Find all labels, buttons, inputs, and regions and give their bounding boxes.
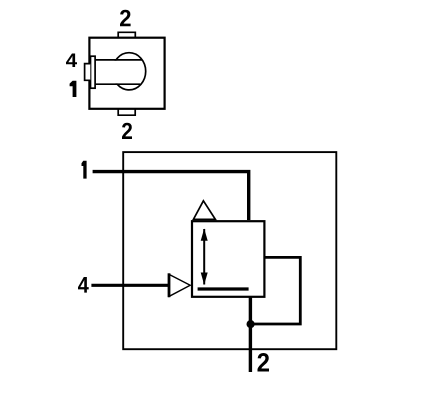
valve body box: [89, 38, 164, 109]
vent triangle (exhaust): [193, 201, 215, 220]
port label 2 (bottom): [122, 123, 132, 139]
top tab (port 2 stub): [118, 32, 135, 38]
left tab (port stub): [85, 64, 91, 81]
port label 1 (left): [70, 81, 77, 97]
bottom tab (port 2 stub): [118, 109, 135, 115]
node label 2: [257, 353, 268, 372]
adjustment double-headed arrow: [203, 229, 205, 285]
port label 4 (top-left): [66, 54, 77, 67]
regulator body box: [192, 221, 264, 297]
port label 2 (top): [120, 10, 131, 27]
barrel (white body over circle): [95, 61, 141, 84]
wire: port 2 output line: [249, 297, 252, 372]
input flow triangle: [169, 275, 190, 297]
node label 4: [78, 277, 89, 293]
wire: port 4 input line: [91, 284, 168, 287]
junction dot: [247, 320, 255, 328]
wire: port 1 supply line: [93, 172, 249, 220]
spring seat bar: [198, 287, 249, 290]
outer enclosure box: [123, 152, 336, 349]
node label 1: [82, 161, 87, 179]
feedback wire (right loop): [252, 257, 300, 324]
knob circle: [113, 53, 146, 90]
flange rectangle: [91, 56, 96, 88]
